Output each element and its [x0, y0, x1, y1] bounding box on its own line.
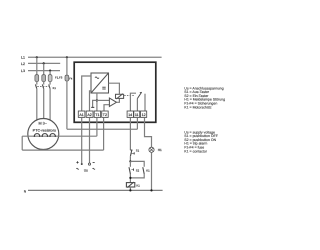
junction L2 phase tap — [43, 62, 45, 64]
svg-text:K1: K1 — [146, 169, 150, 173]
svg-text:T2: T2 — [103, 113, 107, 117]
relay changeover contact: NO side 14 — [130, 93, 136, 111]
power supply block U1 — [91, 73, 109, 93]
wire 11 stub down — [136, 117, 138, 129]
svg-text:11: 11 — [135, 113, 139, 117]
mechanical link dashed coil to contact — [124, 95, 134, 97]
supply terminal - (circle) — [88, 163, 90, 165]
contact K1 aux arm — [143, 167, 144, 174]
label - — [93, 162, 95, 164]
wire T1 stub to PTC chain — [96, 117, 98, 136]
switch S1 plunger — [132, 152, 134, 154]
power supply AC mark — [95, 77, 99, 79]
svg-text:K1 = Motorschütz: K1 = Motorschütz — [184, 105, 212, 109]
wire F4 down — [66, 81, 68, 129]
svg-text:F1.F3: F1.F3 — [55, 76, 63, 80]
wire N rail — [28, 189, 163, 191]
motor M1 circle — [28, 119, 59, 150]
junction K1 coil to N — [129, 189, 131, 191]
terminal T2 — [102, 111, 109, 117]
fuse F4 — [65, 75, 69, 81]
wire phase 3 fuse to contact — [49, 82, 51, 85]
wire motor lead 3 — [49, 89, 51, 121]
svg-text:PTC-resistors: PTC-resistors — [33, 129, 56, 133]
switch S2 (NO pushbutton) wire top — [129, 161, 131, 166]
op-amp U2 comparator — [109, 98, 116, 106]
terminal 12 — [141, 111, 147, 117]
svg-text:L2: L2 — [21, 62, 25, 66]
mechanical link dashed K1 — [37, 85, 51, 87]
junction L1 phase tap — [36, 56, 38, 58]
svg-text:K1: K1 — [136, 183, 140, 187]
terminal T1 — [94, 111, 100, 117]
wire L3 rail — [28, 70, 60, 72]
wire lamp to N — [151, 152, 153, 190]
relay contact common 11 — [136, 99, 138, 112]
wire comparator output to relay coil — [117, 98, 120, 102]
svg-text:K1: K1 — [53, 87, 57, 90]
junction lamp to N — [150, 189, 152, 191]
wire junction to comparator + input — [97, 99, 110, 101]
wire phase 2 fuse to contact — [43, 82, 45, 85]
fuse F3 — [48, 75, 52, 82]
relay coil K internal — [116, 94, 124, 98]
wire sensor loop bottom edge — [22, 149, 103, 151]
wire phase 1 drop — [36, 57, 38, 74]
wire coil to N — [129, 187, 131, 190]
wire L2 rail — [28, 62, 60, 64]
switch S2 arm — [129, 167, 130, 174]
legend German — [184, 86, 225, 109]
wire power block to sensor junction — [96, 93, 98, 111]
junction L1 to F4 — [66, 56, 68, 58]
wire A1 stub to supply + — [81, 117, 83, 163]
PTC resistor 3 — [50, 134, 56, 137]
relay contact arm — [137, 92, 141, 98]
wire 12 stub to lamp — [145, 117, 152, 147]
terminal A2 — [86, 111, 93, 117]
svg-text:S2: S2 — [136, 169, 140, 173]
wire F4 to terminal 11 — [67, 128, 137, 130]
svg-text:L3: L3 — [21, 69, 25, 73]
node junction S1/S2 branch — [129, 160, 131, 162]
wire A1 to power block — [82, 76, 91, 111]
svg-text:12: 12 — [142, 113, 146, 117]
PTC resistor 1 — [34, 134, 40, 137]
legend English — [184, 130, 218, 153]
wire S2 bottom — [129, 174, 131, 183]
svg-text:H1: H1 — [158, 148, 162, 152]
wire branch to K1 aux — [130, 161, 144, 166]
junction L3 phase tap — [49, 70, 51, 72]
wire T2 to comparator - input — [104, 105, 109, 111]
wire A2 stub to supply - — [89, 117, 91, 163]
switch S1 (NC pushbutton) tick — [130, 149, 132, 151]
wire phase 3 drop — [49, 71, 51, 75]
switch S1 arm — [130, 150, 132, 157]
svg-text:A2: A2 — [87, 113, 91, 117]
svg-text:A1: A1 — [79, 113, 83, 117]
node junction below S2 — [129, 177, 131, 179]
fuse F4 wire from L1 — [66, 57, 68, 75]
fuse F1 — [35, 75, 39, 82]
svg-text:14: 14 — [128, 113, 132, 117]
svg-text:M 3~: M 3~ — [39, 122, 47, 126]
wire sensor loop top (PTC chain line) — [22, 135, 97, 137]
terminal 11 — [134, 111, 140, 117]
contactor K1 main contact pole 2 — [42, 84, 43, 88]
power supply diagonal — [91, 73, 109, 93]
label ~ right — [93, 168, 95, 169]
lamp H1 — [149, 147, 154, 152]
contactor K1 main contact pole 1 — [35, 84, 36, 88]
svg-text:S1: S1 — [136, 149, 140, 153]
wire K1 aux bottom to junction — [130, 174, 144, 178]
wire motor lead 1 — [36, 89, 38, 121]
label + — [76, 161, 78, 163]
wire L1 rail — [28, 56, 162, 58]
svg-text:Us: Us — [84, 168, 88, 172]
wire T2 stub to sensor loop — [103, 117, 105, 150]
wire 14 stub to S1 — [129, 117, 131, 150]
relay contact NC side 12 — [144, 94, 146, 111]
wire phase 2 drop — [43, 63, 45, 74]
wire S1 to junction — [129, 156, 131, 161]
wire relay coil to power block — [109, 83, 120, 94]
terminal 14 — [127, 111, 133, 117]
contactor coil K1 — [126, 183, 134, 187]
svg-text:T1: T1 — [95, 113, 99, 117]
wire phase 1 fuse to contact — [36, 82, 38, 85]
supply terminal + (square) — [81, 163, 83, 165]
PTC resistor 2 — [42, 134, 48, 137]
node sensor junction — [96, 99, 98, 101]
label ~ left — [76, 168, 78, 169]
fuse F2 — [42, 75, 46, 82]
power supply DC mark — [102, 86, 105, 88]
terminal A1 — [78, 111, 85, 117]
device box CM-MSS outline — [74, 62, 156, 122]
wire sensor loop left edge — [21, 136, 23, 150]
svg-text:L1: L1 — [21, 56, 25, 60]
svg-text:K1 = contactor: K1 = contactor — [184, 149, 208, 153]
wire A2 to power block — [90, 91, 92, 111]
ground (internal reference) — [93, 100, 97, 107]
contactor K1 main contact pole 3 — [49, 84, 50, 88]
wire motor lead 2 — [43, 89, 45, 119]
switch S2 plunger — [131, 169, 133, 171]
